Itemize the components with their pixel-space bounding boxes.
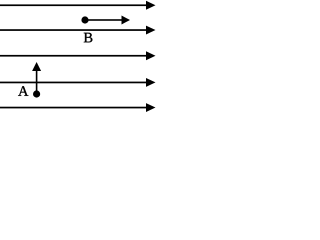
node label A <box>18 86 28 96</box>
node vector A arrowhead <box>32 62 41 71</box>
node arrowhead 3 <box>146 51 156 60</box>
node vector B arrowhead <box>122 16 131 25</box>
node arrowhead 4 <box>146 78 156 87</box>
node arrowhead 2 <box>146 26 156 35</box>
node arrowhead 5 <box>146 103 156 112</box>
wire field line 2 <box>0 29 147 31</box>
background <box>0 0 156 117</box>
node label B <box>84 33 93 43</box>
node B dot <box>81 16 88 23</box>
node arrowhead 1 <box>146 1 156 10</box>
wire field line 3 <box>0 55 147 57</box>
node A dot <box>33 90 40 97</box>
wire vector B shaft <box>85 19 122 21</box>
wire vector A shaft <box>36 70 38 94</box>
wire field line 5 <box>0 107 147 109</box>
wire field line 4 <box>0 82 147 84</box>
wire field line 1 <box>0 4 147 6</box>
